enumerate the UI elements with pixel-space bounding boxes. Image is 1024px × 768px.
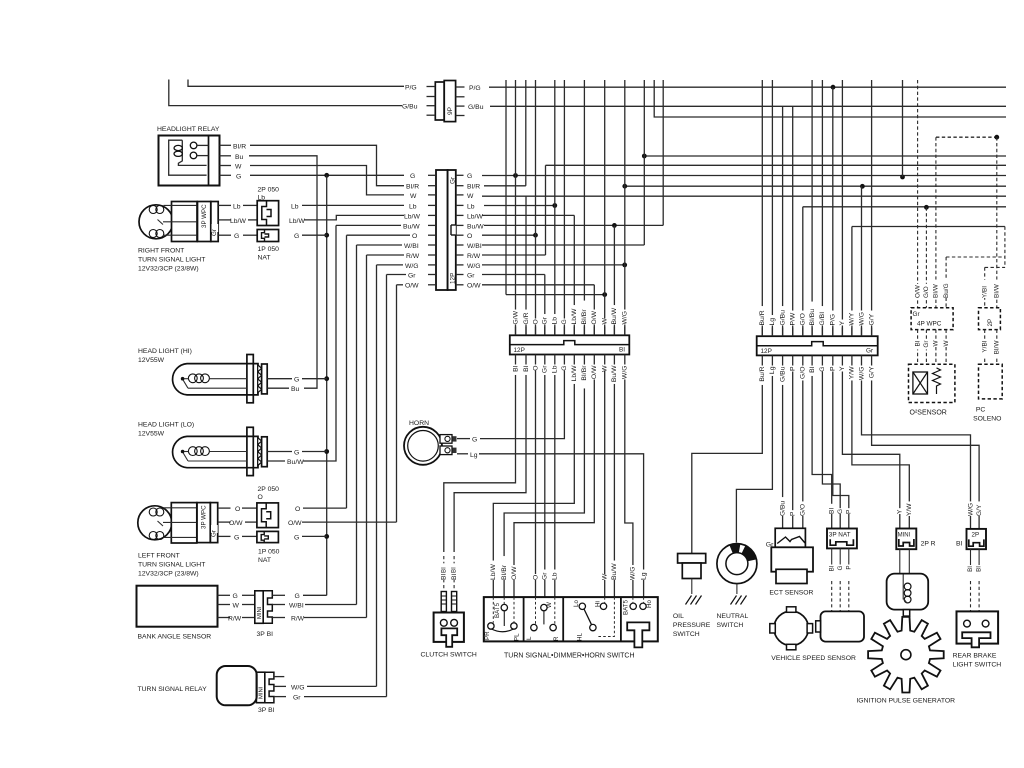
wire O down to switch	[535, 363, 537, 598]
svg-text:Gr: Gr	[913, 311, 921, 318]
svg-text:ECT SENSOR: ECT SENSOR	[769, 590, 813, 597]
wire BI to 3P NAT	[812, 364, 832, 529]
svg-text:Bu/R: Bu/R	[759, 310, 766, 325]
wire column G/BI from top	[821, 80, 823, 336]
wire column G/Y from top	[871, 80, 873, 336]
svg-text:P: P	[845, 566, 852, 570]
svg-text:Y: Y	[839, 321, 846, 326]
lamp HEAD LIGHT (HI)	[138, 348, 267, 403]
wire column Bu/R from top	[761, 80, 763, 336]
wire column x=902.5 from top to G row dot	[902, 80, 904, 177]
sensor BANK ANGLE SENSOR	[137, 586, 231, 641]
relay HEADLIGHT RELAY	[157, 126, 231, 186]
ignition coil of pulse generator	[887, 574, 929, 617]
wire column O	[535, 80, 537, 335]
wire row G east	[482, 175, 1006, 177]
svg-text:Gr: Gr	[293, 695, 301, 702]
svg-text:9P: 9P	[447, 106, 454, 115]
connector 4P WPC	[911, 308, 953, 330]
svg-text:G/Bu: G/Bu	[468, 104, 484, 111]
svg-text:BI: BI	[440, 567, 447, 573]
svg-text:Lg: Lg	[769, 318, 776, 326]
wire row Gr east corner down	[482, 274, 545, 276]
wire G bus vertical	[326, 175, 328, 595]
svg-text:O/W: O/W	[229, 520, 243, 527]
svg-text:O/W: O/W	[591, 310, 598, 324]
connector 2P rear brake	[956, 529, 986, 612]
wire dashed stub x=1004.9	[1004, 227, 1006, 268]
svg-text:NEUTRAL: NEUTRAL	[717, 613, 749, 620]
svg-text:Gr: Gr	[542, 365, 549, 373]
svg-text:G/Y: G/Y	[976, 504, 983, 516]
wire row BI/R right segment from W/G column dot to right edge	[625, 185, 1006, 187]
svg-text:O/W: O/W	[591, 365, 598, 379]
sensor ECT SENSOR	[766, 528, 814, 596]
svg-text:W: W	[410, 193, 417, 200]
wire dashed column BI/W to 4P WPC	[935, 137, 937, 308]
component wire labels above ECT/NAT/MINI/2P	[0, 0, 1, 1]
svg-text:O: O	[532, 575, 539, 580]
svg-text:3P WPC: 3P WPC	[201, 204, 208, 228]
svg-text:2P: 2P	[987, 319, 994, 327]
wire bank W/BI to W/BI column	[305, 604, 357, 606]
svg-text:O: O	[532, 319, 539, 324]
pins into right 12P connector	[762, 328, 871, 364]
wire dashed column Bu/G to 4P WPC	[945, 257, 947, 308]
junction dot Lb row at Lb column	[552, 203, 557, 208]
wire row Lb east to dot	[484, 205, 555, 207]
wire row y=156 from dot x=644 to right edge	[644, 155, 1006, 157]
svg-text:BI: BI	[967, 566, 974, 572]
svg-text:R/W: R/W	[291, 615, 305, 622]
wire column Y from top	[841, 80, 843, 336]
wire Lb to 12P pin	[302, 204, 404, 206]
svg-text:G: G	[294, 450, 299, 457]
connector MINI 3P BI of turn signal relay	[256, 672, 286, 714]
lamp HEAD LIGHT (LO)	[138, 421, 267, 475]
left pin labels of 12P vertical connector	[403, 173, 420, 290]
wire row O/W east corner down	[482, 284, 594, 286]
connector 12P BI (horizontal)	[510, 335, 630, 354]
junction dot G row at x=902.5	[900, 175, 905, 180]
svg-text:P: P	[789, 511, 796, 516]
wire O pin segment to 12P	[347, 234, 411, 236]
pc solenoid wire labels below 2P	[985, 330, 997, 365]
wire O/W to O/W column	[302, 521, 397, 523]
svg-text:W: W	[235, 164, 242, 171]
wire column W/G	[624, 80, 626, 335]
junction dot W/G row at W/G column	[622, 263, 627, 268]
svg-text:12P: 12P	[450, 273, 457, 284]
svg-text:Gr: Gr	[542, 316, 549, 324]
junction dot BI/R right segment at W/G column	[622, 184, 627, 189]
svg-text:O/W: O/W	[405, 283, 419, 290]
switch NEUTRAL SWITCH	[717, 544, 757, 629]
svg-text:W/BI: W/BI	[289, 602, 304, 609]
wire Bu/W down to switch	[613, 363, 615, 598]
wire dashed row y=257	[946, 256, 1005, 258]
wire column P/G from P/G row dot	[832, 87, 834, 336]
wire column G/W	[515, 80, 517, 335]
svg-text:Y/W: Y/W	[906, 503, 913, 516]
svg-text:BI: BI	[619, 347, 625, 354]
svg-text:O: O	[258, 494, 263, 501]
wire color-code labels overlay	[440, 280, 1000, 580]
svg-text:Bu: Bu	[291, 386, 300, 393]
wire W/G jog to switch	[625, 363, 633, 598]
wire column W/G right from BI/R row dot	[861, 186, 863, 336]
wire bank G to G bus	[303, 594, 327, 596]
wire Bu relay down to headlight HI	[249, 156, 317, 388]
svg-text:W/G: W/G	[858, 367, 865, 381]
svg-text:RIGHT FRONT: RIGHT FRONT	[138, 248, 184, 255]
svg-text:LEFT FRONT: LEFT FRONT	[138, 552, 180, 559]
wire BI/R relay to 12P connector	[250, 145, 404, 185]
svg-text:2P R: 2P R	[921, 541, 936, 548]
junction dot row156 x=644.3	[642, 154, 647, 159]
wire O to O column	[303, 507, 347, 509]
wire W/G pin west segment to column	[377, 264, 404, 266]
wire G to G bus	[302, 535, 327, 537]
svg-text:BI/Br: BI/Br	[501, 564, 508, 580]
svg-text:BAT5: BAT5	[494, 602, 501, 618]
wire O lamp to 2P050	[242, 507, 257, 509]
svg-text:G: G	[233, 593, 238, 600]
svg-text:Lg: Lg	[769, 366, 776, 374]
wire BI#1 to clutch switch	[444, 363, 516, 553]
connector 1P 050 NAT lower	[257, 531, 280, 564]
wire G down to horn	[480, 363, 564, 439]
svg-text:VEHICLE SPEED SENSOR: VEHICLE SPEED SENSOR	[771, 655, 856, 662]
svg-text:Y/BI: Y/BI	[981, 286, 988, 298]
wire Y/W to MINI 2P R	[852, 364, 909, 529]
svg-text:P/W: P/W	[789, 312, 796, 325]
wire W/BI pin west segment to column	[357, 244, 403, 246]
svg-text:Lb: Lb	[552, 572, 559, 580]
svg-text:12V55W: 12V55W	[138, 430, 165, 437]
svg-text:W: W	[233, 602, 240, 609]
svg-text:G/O: G/O	[800, 313, 807, 325]
svg-text:P: P	[846, 509, 853, 514]
wire W relay to 12P connector	[250, 166, 404, 195]
svg-text:O: O	[412, 233, 417, 240]
svg-text:TURN SIGNAL•DIMMER•HORN SWITCH: TURN SIGNAL•DIMMER•HORN SWITCH	[504, 653, 635, 660]
wire column x=545 segment row165 to R/W row	[545, 165, 547, 255]
svg-text:BI/R: BI/R	[467, 184, 480, 191]
bundle labels above right 12P connector	[0, 0, 1, 1]
svg-text:BAT5: BAT5	[623, 599, 630, 615]
wire R/W column up	[366, 255, 368, 618]
svg-text:3P NAT: 3P NAT	[829, 532, 851, 539]
svg-text:Y/W: Y/W	[849, 366, 856, 379]
svg-text:W/G: W/G	[622, 311, 629, 325]
wire dashed column O/W to 4P WPC	[917, 80, 919, 308]
wire Gr pin west segment to column	[387, 274, 407, 276]
wire G to 3P NAT	[822, 364, 840, 529]
svg-text:PL: PL	[514, 633, 521, 641]
wire G headlight HI to G bus	[267, 378, 292, 380]
svg-text:HL: HL	[577, 633, 584, 641]
svg-text:Y: Y	[839, 366, 846, 371]
svg-text:G: G	[294, 377, 299, 384]
svg-text:SOLENO: SOLENO	[973, 416, 1001, 423]
svg-text:BI: BI	[523, 365, 530, 372]
wire Lb/W jog to switch	[493, 363, 574, 598]
connector 12P Gr (right horizontal)	[757, 336, 878, 355]
svg-text:G: G	[295, 593, 300, 600]
svg-text:Gr: Gr	[866, 348, 874, 355]
svg-text:W/BI: W/BI	[467, 243, 482, 250]
svg-text:HEAD LIGHT (HI): HEAD LIGHT (HI)	[138, 348, 192, 355]
svg-text:2P 050: 2P 050	[258, 486, 280, 493]
label of left front turn signal light	[138, 552, 205, 577]
svg-text:Gr: Gr	[408, 272, 416, 279]
svg-text:G/Bu: G/Bu	[779, 366, 786, 382]
wire bank R/W to R/W column	[304, 617, 367, 619]
svg-text:Lb/W: Lb/W	[467, 213, 483, 220]
sensor O2 SENSOR	[909, 364, 955, 416]
wire relay Gr to Gr column	[304, 696, 387, 698]
svg-text:BI: BI	[512, 365, 519, 372]
svg-text:NAT: NAT	[258, 557, 271, 564]
svg-text:O/W: O/W	[467, 283, 481, 290]
svg-text:P: P	[830, 366, 837, 371]
wire G headlight LO to G bus	[267, 451, 292, 453]
svg-text:BI: BI	[976, 566, 983, 572]
junction dot G row at G/W column	[513, 173, 518, 178]
wire column P/W from G/Bu row	[792, 106, 794, 336]
svg-text:Bu/W: Bu/W	[611, 365, 618, 382]
wire W/BI column up	[356, 245, 358, 605]
svg-text:P: P	[789, 366, 796, 371]
junction dot G bus at headlight HI G	[324, 376, 329, 381]
svg-text:W: W	[601, 318, 608, 325]
svg-text:Lb/W: Lb/W	[289, 218, 305, 225]
connector 9P	[427, 81, 465, 122]
wire G lamp to 1P050	[243, 234, 257, 236]
wire relay W/G to W/G column	[307, 685, 377, 687]
generator IGNITION PULSE GENERATOR	[856, 617, 955, 705]
wire row W/BI east to corner up at x=644	[482, 244, 644, 246]
svg-text:W/Y: W/Y	[849, 312, 856, 325]
svg-text:P/G: P/G	[830, 314, 837, 326]
svg-text:12V32/3CP (23/8W): 12V32/3CP (23/8W)	[138, 570, 199, 577]
junction dot row294 at W column	[602, 292, 607, 297]
svg-text:PC: PC	[976, 407, 986, 414]
relay TURN SIGNAL RELAY	[138, 666, 257, 705]
svg-text:BI/Br: BI/Br	[581, 309, 588, 325]
svg-text:W/G: W/G	[291, 684, 305, 691]
wire column Lb/W from Lb/W row down	[573, 215, 575, 335]
svg-text:G: G	[561, 366, 568, 371]
svg-text:G: G	[467, 173, 472, 180]
svg-text:G/Bu: G/Bu	[402, 104, 418, 111]
svg-text:Gr: Gr	[923, 340, 930, 348]
svg-text:G: G	[234, 534, 239, 541]
wire column Lb	[554, 80, 556, 335]
wire dashed column G/O to 4P WPC	[925, 207, 927, 307]
svg-text:MINI: MINI	[257, 606, 263, 619]
solenoid PC SOLENOID	[973, 364, 1002, 422]
svg-text:HEAD LIGHT (LO): HEAD LIGHT (LO)	[138, 421, 194, 428]
svg-text:Lb: Lb	[467, 203, 475, 210]
wire Lb down to switch	[554, 363, 556, 598]
svg-text:G: G	[236, 173, 241, 180]
wire row Lb/W east corner down	[482, 214, 574, 216]
svg-text:BI: BI	[809, 366, 816, 373]
wire dashed column Y/BI to PC solenoid	[984, 267, 986, 307]
svg-text:1P 050: 1P 050	[258, 246, 280, 253]
wire G from 1P050 to G bus	[302, 234, 327, 236]
svg-text:Bu/G: Bu/G	[943, 283, 950, 298]
svg-text:R/W: R/W	[406, 253, 420, 260]
wire column Gr from Gr row to connector	[544, 275, 546, 336]
lamp RIGHT FRONT TURN SIGNAL LIGHT	[139, 202, 198, 242]
svg-text:OIL: OIL	[673, 613, 684, 620]
svg-text:Lb: Lb	[291, 203, 299, 210]
svg-text:G: G	[294, 233, 299, 240]
wire W/G column up	[376, 265, 378, 687]
wire R/W pin west segment to column	[367, 254, 405, 256]
switch REAR BRAKE LIGHT SWITCH	[953, 611, 1002, 668]
wire P to ECT sensor	[792, 364, 794, 529]
svg-text:R/W: R/W	[467, 253, 481, 260]
pins into horizontal 12P connector	[516, 327, 625, 363]
svg-text:O/W: O/W	[914, 284, 921, 298]
wire Lb lamp to 2P050	[243, 204, 257, 206]
wire row P/G to right edge	[489, 86, 1006, 88]
svg-text:W/BI: W/BI	[404, 243, 419, 250]
wire stub horn Lg	[457, 453, 468, 455]
wire column BI/Bu from top	[811, 80, 813, 336]
wire Lb/W lamp to 2P050	[248, 219, 257, 221]
svg-text:IGNITION PULSE GENERATOR: IGNITION PULSE GENERATOR	[856, 698, 955, 705]
svg-text:12V32/3CP (23/8W): 12V32/3CP (23/8W)	[138, 266, 199, 273]
wire Lg from horn down to switch	[479, 454, 644, 597]
wire bank R/W to MINI	[242, 617, 255, 619]
wire Gr down to switch	[544, 363, 546, 598]
svg-text:W: W	[467, 193, 474, 200]
svg-text:W: W	[546, 602, 553, 608]
svg-text:Ho: Ho	[646, 600, 653, 608]
connector MINI 2P R	[896, 529, 935, 574]
junction dot G bus top	[324, 173, 329, 178]
wire O/W lamp to 2P050	[245, 521, 257, 523]
svg-text:Lb: Lb	[552, 365, 559, 373]
junction dot dashed row x=996.8	[994, 135, 999, 140]
svg-text:Gr: Gr	[542, 572, 549, 580]
wire G/Bu to ECT sensor	[782, 364, 784, 529]
wire row W/G east to dot	[482, 264, 625, 266]
connector 3P WPC of left turn signal	[197, 503, 231, 543]
wire column G	[563, 80, 565, 335]
svg-text:Lg: Lg	[640, 572, 647, 580]
svg-text:BI: BI	[828, 508, 835, 514]
wire Bu headlight HI stub	[267, 387, 289, 389]
connector 1P 050 NAT	[257, 230, 279, 262]
svg-text:BI/W: BI/W	[993, 283, 1000, 298]
wire G/O to ECT sensor	[802, 364, 804, 529]
svg-text:12P: 12P	[761, 348, 772, 355]
svg-text:BI/W: BI/W	[933, 283, 940, 298]
svg-text:Gr: Gr	[211, 229, 218, 236]
svg-text:G/W: G/W	[512, 310, 519, 324]
svg-text:2P: 2P	[972, 532, 980, 539]
junction dot P/G x=833	[831, 85, 836, 90]
wire column W	[604, 80, 606, 335]
wire G relay to 12P connector	[250, 174, 404, 176]
wire P/G from top-left	[188, 80, 404, 87]
wire column x=644 top to W/BI row	[643, 80, 645, 245]
svg-text:G/BI: G/BI	[819, 312, 826, 326]
svg-text:PR: PR	[484, 631, 491, 640]
svg-text:3P BI: 3P BI	[257, 631, 274, 638]
svg-text:G: G	[837, 565, 844, 570]
wire column O/W from O/W row down	[593, 285, 595, 336]
svg-text:BI/Bu: BI/Bu	[809, 309, 816, 326]
svg-text:Gr: Gr	[467, 272, 475, 279]
svg-text:HEADLIGHT RELAY: HEADLIGHT RELAY	[157, 126, 220, 133]
svg-text:BANK ANGLE SENSOR: BANK ANGLE SENSOR	[138, 634, 212, 641]
lamp LEFT FRONT TURN SIGNAL LIGHT	[138, 503, 197, 543]
connector 2P 050 O	[257, 486, 279, 528]
svg-text:W/G: W/G	[630, 566, 637, 580]
sensor VEHICLE SPEED SENSOR	[770, 607, 864, 662]
svg-text:3P WPC: 3P WPC	[201, 505, 208, 529]
svg-text:12V55W: 12V55W	[138, 357, 165, 364]
svg-text:MINI: MINI	[259, 686, 265, 699]
right pin labels of 12P vertical connector	[467, 173, 484, 290]
svg-text:Lb/W: Lb/W	[490, 564, 497, 580]
wire column G/R upper segment	[525, 80, 527, 186]
wire P to 3P NAT	[833, 364, 849, 529]
wire column BI/Br	[583, 80, 585, 335]
svg-text:O: O	[295, 506, 300, 513]
svg-text:Lb/W: Lb/W	[571, 365, 578, 381]
svg-text:TURN SIGNAL RELAY: TURN SIGNAL RELAY	[138, 686, 208, 693]
svg-text:O: O	[235, 506, 240, 513]
svg-text:LIGHT SWITCH: LIGHT SWITCH	[953, 662, 1002, 669]
svg-text:G: G	[234, 233, 239, 240]
svg-text:O²SENSOR: O²SENSOR	[910, 410, 947, 417]
switch TURN SIGNAL DIMMER HORN SWITCH	[484, 597, 658, 647]
svg-text:Bu/W: Bu/W	[467, 223, 484, 230]
wire column x=664 top to Bu/W row	[662, 80, 664, 225]
svg-text:Bu/W: Bu/W	[403, 223, 420, 230]
svg-text:TURN SIGNAL LIGHT: TURN SIGNAL LIGHT	[138, 561, 205, 568]
wire O column up	[346, 235, 348, 508]
svg-text:W: W	[933, 340, 940, 347]
junction dot G bus at left turn signal G	[324, 534, 329, 539]
svg-text:G/O: G/O	[800, 504, 807, 516]
wire Bu/W headlight LO to column	[267, 460, 285, 462]
wire row Bu/W east to corner up at x=664	[484, 224, 663, 226]
connector 12P Gr (vertical)	[436, 170, 457, 290]
svg-text:BI: BI	[451, 567, 458, 573]
wire column W/Y from row226	[851, 227, 853, 337]
svg-text:G: G	[294, 534, 299, 541]
svg-text:12P: 12P	[514, 347, 525, 354]
connector 3P WPC of right turn signal	[198, 202, 232, 242]
wire column G/R lower segment	[525, 196, 527, 335]
junction dot G bus at headlight LO G	[324, 449, 329, 454]
wire row O east to dot	[482, 234, 536, 236]
wire O/W pin west segment to column	[397, 284, 404, 286]
wire row y=207 from G/O corner to right edge	[803, 206, 1006, 208]
svg-text:3P BI: 3P BI	[258, 707, 275, 714]
svg-text:TURN SIGNAL LIGHT: TURN SIGNAL LIGHT	[138, 257, 205, 264]
wire row3 y=117 from x=654 corner to right edge	[654, 80, 1006, 117]
